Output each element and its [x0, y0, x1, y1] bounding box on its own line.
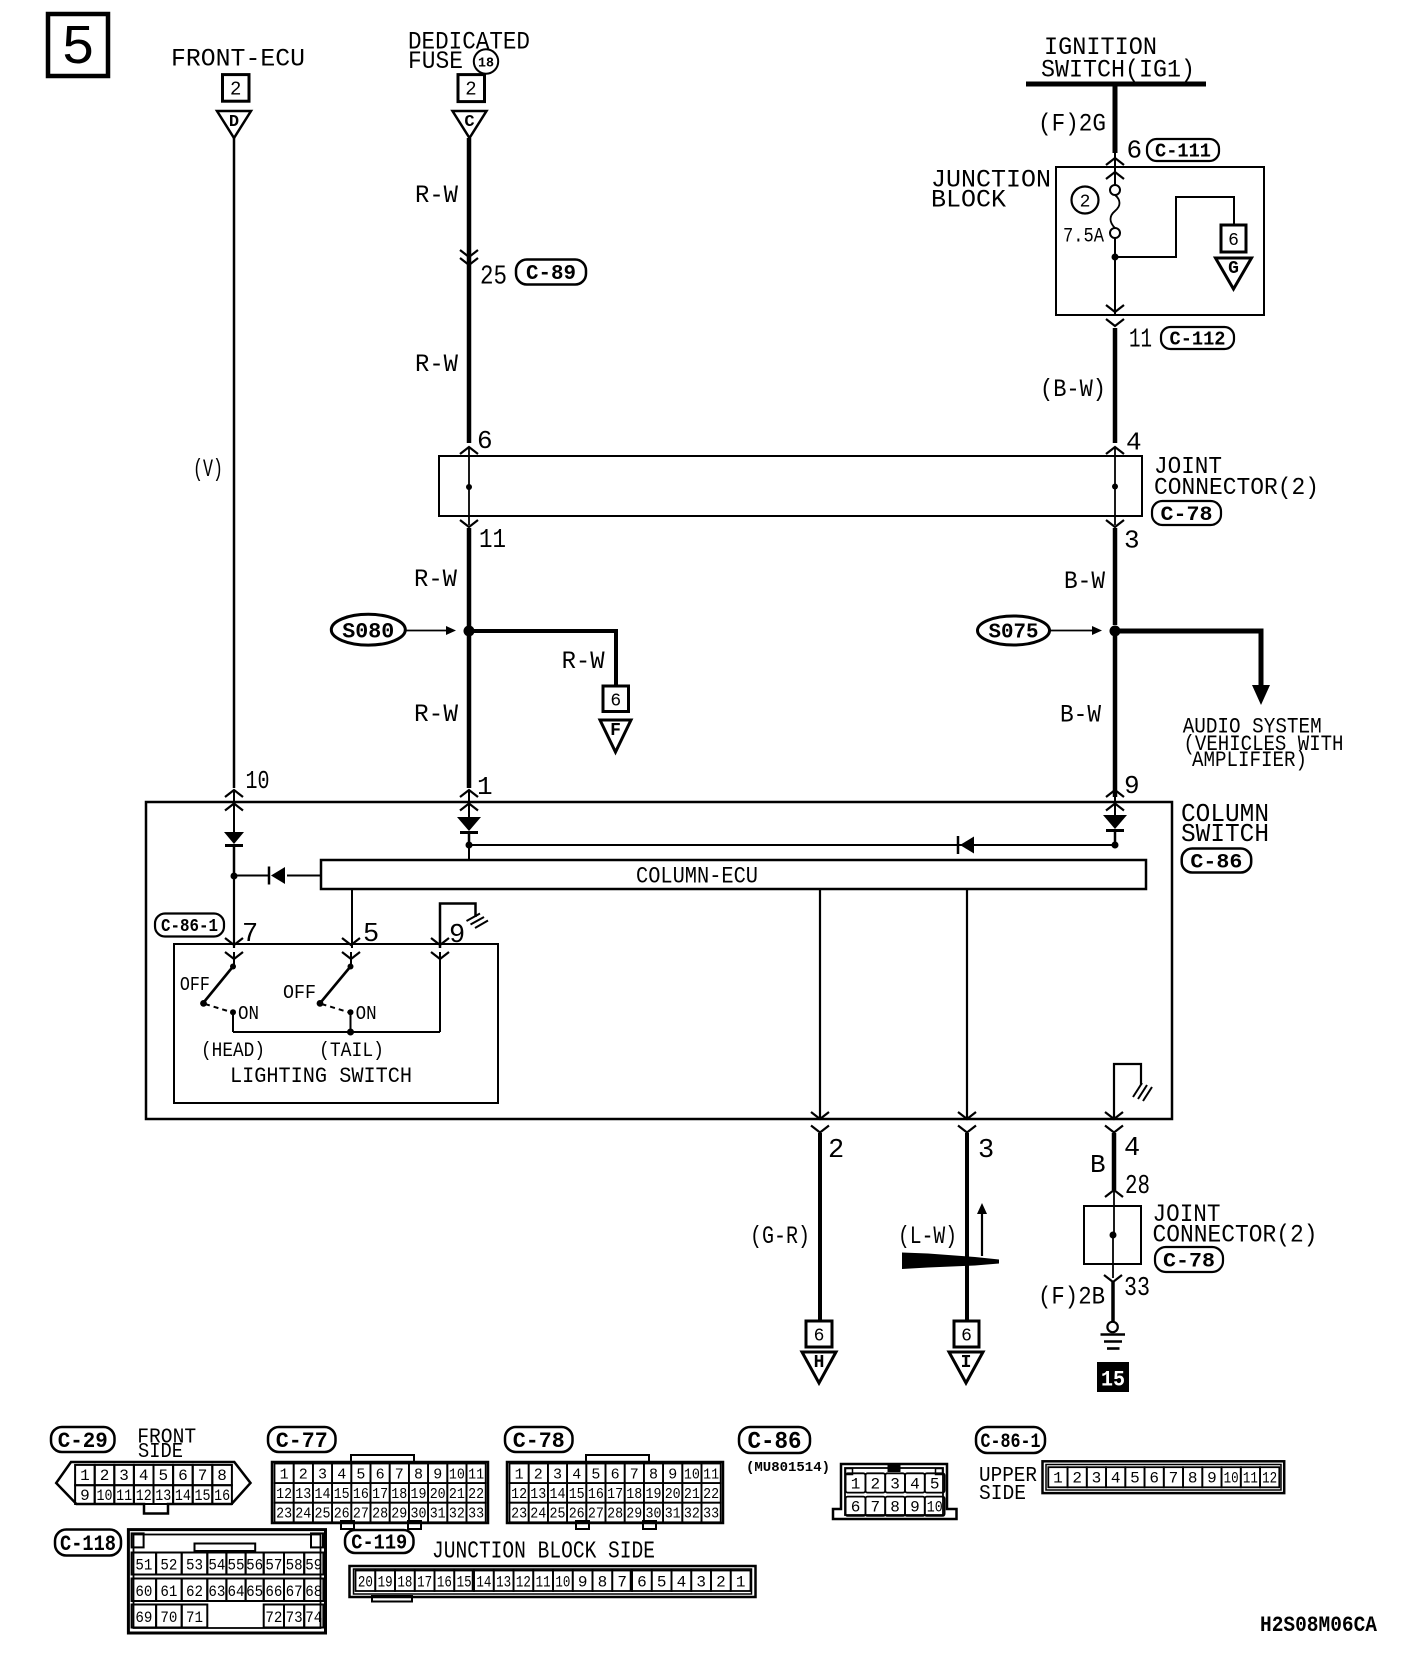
svg-text:C-77: C-77 — [276, 1429, 328, 1454]
svg-text:5: 5 — [356, 1466, 365, 1483]
svg-text:4: 4 — [677, 1574, 687, 1592]
svg-text:71: 71 — [186, 1609, 203, 1627]
svg-text:1: 1 — [851, 1476, 861, 1494]
svg-text:C-86: C-86 — [1190, 851, 1242, 874]
svg-text:26: 26 — [569, 1506, 585, 1523]
svg-text:29: 29 — [626, 1506, 642, 1523]
svg-text:C-29: C-29 — [58, 1429, 108, 1454]
svg-text:11: 11 — [1129, 326, 1152, 356]
svg-text:24: 24 — [530, 1506, 546, 1523]
svg-text:6: 6 — [610, 691, 621, 711]
svg-text:6: 6 — [1127, 136, 1143, 166]
svg-text:10: 10 — [927, 1499, 943, 1517]
svg-text:10: 10 — [97, 1487, 113, 1505]
svg-text:4: 4 — [337, 1466, 346, 1483]
svg-text:68: 68 — [305, 1583, 322, 1601]
svg-text:70: 70 — [160, 1609, 177, 1627]
svg-text:7: 7 — [1169, 1470, 1179, 1488]
svg-text:8: 8 — [649, 1466, 658, 1483]
svg-text:1: 1 — [280, 1466, 289, 1483]
svg-text:14: 14 — [476, 1574, 491, 1592]
svg-text:7: 7 — [617, 1574, 627, 1592]
svg-text:14: 14 — [550, 1486, 566, 1503]
svg-text:4: 4 — [139, 1467, 149, 1485]
svg-text:63: 63 — [208, 1583, 225, 1601]
svg-text:29: 29 — [391, 1506, 407, 1523]
svg-text:18: 18 — [391, 1486, 407, 1503]
svg-text:27: 27 — [588, 1506, 604, 1523]
svg-text:15: 15 — [1101, 1368, 1125, 1393]
svg-text:1: 1 — [736, 1574, 746, 1592]
svg-text:12: 12 — [136, 1487, 152, 1505]
svg-text:13: 13 — [530, 1486, 546, 1503]
svg-text:6: 6 — [611, 1466, 620, 1483]
svg-text:6: 6 — [1228, 231, 1239, 251]
svg-text:22: 22 — [468, 1486, 484, 1503]
svg-text:8: 8 — [890, 1499, 900, 1517]
svg-text:R-W: R-W — [414, 700, 458, 729]
svg-text:I: I — [961, 1353, 972, 1373]
svg-text:33: 33 — [703, 1506, 719, 1523]
svg-text:1: 1 — [1053, 1470, 1063, 1488]
svg-text:G: G — [1228, 259, 1239, 279]
svg-text:SWITCH: SWITCH — [1181, 819, 1269, 849]
svg-text:27: 27 — [353, 1506, 369, 1523]
svg-text:3: 3 — [318, 1466, 327, 1483]
svg-text:ON: ON — [356, 1003, 377, 1025]
svg-text:18: 18 — [397, 1574, 412, 1592]
svg-text:(V): (V) — [193, 455, 223, 484]
svg-text:17: 17 — [607, 1486, 623, 1503]
svg-text:11: 11 — [1243, 1470, 1258, 1488]
svg-text:21: 21 — [684, 1486, 700, 1503]
svg-text:51: 51 — [135, 1557, 152, 1575]
svg-text:C-78: C-78 — [1163, 1250, 1215, 1273]
svg-text:7: 7 — [630, 1466, 639, 1483]
svg-text:5: 5 — [158, 1467, 168, 1485]
svg-text:C-86-1: C-86-1 — [161, 917, 218, 937]
svg-text:C-78: C-78 — [513, 1429, 565, 1454]
svg-text:2: 2 — [465, 79, 476, 101]
svg-text:3: 3 — [696, 1574, 706, 1592]
svg-text:3: 3 — [890, 1476, 900, 1494]
svg-text:S080: S080 — [342, 620, 394, 645]
svg-text:(HEAD): (HEAD) — [201, 1040, 265, 1063]
svg-text:9: 9 — [910, 1499, 920, 1517]
svg-text:OFF: OFF — [283, 982, 316, 1004]
svg-text:C-78: C-78 — [1161, 504, 1213, 527]
svg-text:9: 9 — [668, 1466, 677, 1483]
svg-text:(TAIL): (TAIL) — [319, 1040, 384, 1063]
svg-text:(B-W): (B-W) — [1040, 375, 1106, 404]
svg-text:3: 3 — [119, 1467, 129, 1485]
svg-text:33: 33 — [1124, 1274, 1150, 1304]
svg-text:15: 15 — [457, 1574, 472, 1592]
svg-text:2: 2 — [1080, 193, 1091, 213]
svg-text:1: 1 — [477, 772, 493, 802]
svg-text:1: 1 — [515, 1466, 524, 1483]
svg-text:FUSE: FUSE — [408, 47, 463, 76]
svg-text:LIGHTING SWITCH: LIGHTING SWITCH — [230, 1064, 412, 1089]
svg-text:9: 9 — [1124, 771, 1140, 801]
svg-text:20: 20 — [430, 1486, 446, 1503]
svg-text:14: 14 — [315, 1486, 331, 1503]
svg-text:69: 69 — [135, 1609, 152, 1627]
svg-text:25: 25 — [480, 263, 507, 293]
svg-text:5: 5 — [61, 16, 95, 80]
svg-text:2: 2 — [828, 1136, 844, 1166]
svg-text:(F)2G: (F)2G — [1038, 110, 1106, 139]
svg-text:20: 20 — [358, 1574, 373, 1592]
svg-text:9: 9 — [1207, 1470, 1217, 1488]
svg-text:28: 28 — [607, 1506, 623, 1523]
svg-text:6: 6 — [637, 1574, 647, 1592]
svg-text:55: 55 — [228, 1557, 245, 1575]
svg-text:4: 4 — [1111, 1470, 1121, 1488]
svg-text:57: 57 — [265, 1557, 282, 1575]
svg-text:7: 7 — [198, 1467, 208, 1485]
svg-text:3: 3 — [1092, 1470, 1102, 1488]
svg-text:9: 9 — [433, 1466, 442, 1483]
svg-text:8: 8 — [598, 1574, 608, 1592]
svg-text:22: 22 — [703, 1486, 719, 1503]
svg-text:JUNCTION BLOCK SIDE: JUNCTION BLOCK SIDE — [432, 1539, 655, 1566]
svg-text:FRONT-ECU: FRONT-ECU — [171, 45, 305, 74]
svg-text:11: 11 — [468, 1466, 484, 1483]
svg-text:52: 52 — [160, 1557, 177, 1575]
svg-text:2: 2 — [870, 1476, 880, 1494]
svg-text:3: 3 — [978, 1136, 994, 1166]
svg-text:17: 17 — [372, 1486, 388, 1503]
svg-text:31: 31 — [665, 1506, 681, 1523]
svg-text:6: 6 — [961, 1327, 972, 1347]
svg-text:R-W: R-W — [562, 647, 605, 676]
svg-text:4: 4 — [1124, 1134, 1140, 1164]
svg-text:62: 62 — [186, 1583, 203, 1601]
svg-text:56: 56 — [246, 1557, 263, 1575]
svg-text:B-W: B-W — [1064, 567, 1105, 596]
svg-text:C-118: C-118 — [60, 1532, 116, 1557]
svg-text:13: 13 — [155, 1487, 171, 1505]
svg-text:19: 19 — [378, 1574, 393, 1592]
svg-text:C-89: C-89 — [526, 263, 576, 286]
svg-text:5: 5 — [591, 1466, 600, 1483]
svg-text:18: 18 — [478, 56, 494, 72]
svg-text:53: 53 — [186, 1557, 203, 1575]
svg-text:C-86: C-86 — [748, 1429, 802, 1456]
svg-text:H: H — [814, 1353, 825, 1373]
svg-text:C-119: C-119 — [351, 1533, 407, 1556]
svg-text:6: 6 — [1149, 1470, 1159, 1488]
svg-text:C-86-1: C-86-1 — [981, 1431, 1041, 1454]
svg-text:H2S08M06CA: H2S08M06CA — [1260, 1613, 1378, 1638]
svg-text:C: C — [464, 113, 474, 132]
svg-text:28: 28 — [1125, 1172, 1150, 1202]
svg-text:19: 19 — [411, 1486, 427, 1503]
svg-text:72: 72 — [265, 1609, 282, 1627]
svg-text:R-W: R-W — [415, 181, 458, 210]
svg-text:7: 7 — [395, 1466, 404, 1483]
svg-text:2: 2 — [534, 1466, 543, 1483]
svg-text:25: 25 — [550, 1506, 566, 1523]
svg-text:6: 6 — [814, 1327, 825, 1347]
svg-text:11: 11 — [703, 1466, 719, 1483]
svg-text:BLOCK: BLOCK — [931, 186, 1006, 215]
svg-text:12: 12 — [1262, 1470, 1277, 1488]
svg-text:4: 4 — [572, 1466, 581, 1483]
svg-text:(F)2B: (F)2B — [1038, 1283, 1105, 1312]
svg-text:9: 9 — [578, 1574, 588, 1592]
svg-text:9: 9 — [449, 921, 465, 951]
svg-text:16: 16 — [437, 1574, 452, 1592]
svg-text:4: 4 — [910, 1476, 920, 1494]
svg-text:AMPLIFIER): AMPLIFIER) — [1192, 748, 1307, 773]
svg-text:30: 30 — [411, 1506, 427, 1523]
svg-text:10: 10 — [1224, 1470, 1239, 1488]
svg-text:8: 8 — [1188, 1470, 1198, 1488]
svg-text:7.5A: 7.5A — [1063, 226, 1104, 249]
svg-text:B: B — [1090, 1150, 1106, 1180]
svg-text:13: 13 — [496, 1574, 511, 1592]
svg-text:10: 10 — [449, 1466, 465, 1483]
svg-text:54: 54 — [208, 1557, 225, 1575]
svg-text:2: 2 — [299, 1466, 308, 1483]
svg-text:CONNECTOR(2): CONNECTOR(2) — [1154, 475, 1319, 502]
svg-text:SIDE: SIDE — [138, 1441, 183, 1464]
svg-text:F: F — [610, 721, 621, 741]
svg-text:17: 17 — [417, 1574, 432, 1592]
svg-text:32: 32 — [449, 1506, 465, 1523]
svg-text:61: 61 — [160, 1583, 177, 1601]
svg-text:CONNECTOR(2): CONNECTOR(2) — [1153, 1221, 1318, 1250]
svg-text:25: 25 — [315, 1506, 331, 1523]
svg-text:R-W: R-W — [414, 565, 457, 594]
svg-text:7: 7 — [242, 920, 258, 950]
svg-text:15: 15 — [195, 1487, 211, 1505]
svg-text:64: 64 — [228, 1583, 245, 1601]
svg-text:20: 20 — [665, 1486, 681, 1503]
svg-text:12: 12 — [511, 1486, 527, 1503]
svg-text:D: D — [229, 113, 239, 132]
svg-text:26: 26 — [334, 1506, 350, 1523]
svg-text:12: 12 — [276, 1486, 292, 1503]
svg-text:8: 8 — [414, 1466, 423, 1483]
svg-text:11: 11 — [116, 1487, 132, 1505]
svg-text:COLUMN-ECU: COLUMN-ECU — [636, 864, 758, 890]
svg-text:5: 5 — [1130, 1470, 1140, 1488]
svg-text:11: 11 — [479, 526, 506, 556]
svg-text:66: 66 — [265, 1583, 282, 1601]
svg-text:74: 74 — [305, 1609, 322, 1627]
svg-text:60: 60 — [135, 1583, 152, 1601]
svg-text:10: 10 — [555, 1574, 570, 1592]
svg-text:65: 65 — [246, 1583, 263, 1601]
svg-text:R-W: R-W — [415, 350, 458, 379]
svg-text:5: 5 — [657, 1574, 667, 1592]
svg-text:13: 13 — [295, 1486, 311, 1503]
svg-text:16: 16 — [588, 1486, 604, 1503]
svg-text:21: 21 — [449, 1486, 465, 1503]
svg-text:C-111: C-111 — [1155, 140, 1211, 162]
svg-text:23: 23 — [276, 1506, 292, 1523]
svg-text:2: 2 — [100, 1467, 110, 1485]
svg-text:19: 19 — [646, 1486, 662, 1503]
svg-text:10: 10 — [246, 766, 270, 796]
svg-text:2: 2 — [716, 1574, 726, 1592]
svg-text:32: 32 — [684, 1506, 700, 1523]
svg-text:6: 6 — [178, 1467, 188, 1485]
svg-text:28: 28 — [372, 1506, 388, 1523]
svg-text:6: 6 — [851, 1499, 861, 1517]
svg-text:OFF: OFF — [180, 974, 210, 996]
svg-text:10: 10 — [684, 1466, 700, 1483]
svg-text:8: 8 — [217, 1467, 227, 1485]
svg-text:12: 12 — [516, 1574, 531, 1592]
svg-text:30: 30 — [646, 1506, 662, 1523]
svg-text:B-W: B-W — [1060, 701, 1101, 730]
svg-text:31: 31 — [430, 1506, 446, 1523]
svg-text:2: 2 — [230, 79, 241, 101]
svg-text:59: 59 — [305, 1557, 322, 1575]
svg-text:2: 2 — [1072, 1470, 1082, 1488]
svg-text:1: 1 — [80, 1467, 90, 1485]
svg-text:(G-R): (G-R) — [750, 1222, 810, 1251]
svg-text:16: 16 — [353, 1486, 369, 1503]
svg-text:15: 15 — [334, 1486, 350, 1503]
svg-text:S075: S075 — [989, 622, 1039, 645]
svg-text:6: 6 — [477, 426, 493, 456]
svg-text:11: 11 — [536, 1574, 551, 1592]
svg-text:C-112: C-112 — [1170, 328, 1226, 350]
svg-text:23: 23 — [511, 1506, 527, 1523]
svg-text:6: 6 — [376, 1466, 385, 1483]
svg-text:18: 18 — [626, 1486, 642, 1503]
svg-text:15: 15 — [569, 1486, 585, 1503]
svg-text:24: 24 — [295, 1506, 311, 1523]
svg-text:73: 73 — [286, 1609, 303, 1627]
svg-text:(MU801514): (MU801514) — [746, 1460, 830, 1476]
svg-text:3: 3 — [1124, 526, 1140, 556]
svg-text:67: 67 — [286, 1583, 303, 1601]
svg-text:ON: ON — [238, 1003, 259, 1025]
svg-text:SWITCH(IG1): SWITCH(IG1) — [1041, 56, 1195, 85]
svg-text:16: 16 — [214, 1487, 230, 1505]
svg-text:14: 14 — [175, 1487, 191, 1505]
svg-text:5: 5 — [363, 920, 379, 950]
svg-text:4: 4 — [1126, 428, 1142, 458]
svg-text:58: 58 — [286, 1557, 303, 1575]
svg-text:(L-W): (L-W) — [898, 1222, 957, 1251]
svg-text:3: 3 — [553, 1466, 562, 1483]
svg-text:SIDE: SIDE — [979, 1483, 1026, 1506]
svg-text:7: 7 — [870, 1499, 880, 1517]
svg-text:5: 5 — [930, 1476, 940, 1494]
svg-text:9: 9 — [80, 1487, 90, 1505]
svg-text:33: 33 — [468, 1506, 484, 1523]
